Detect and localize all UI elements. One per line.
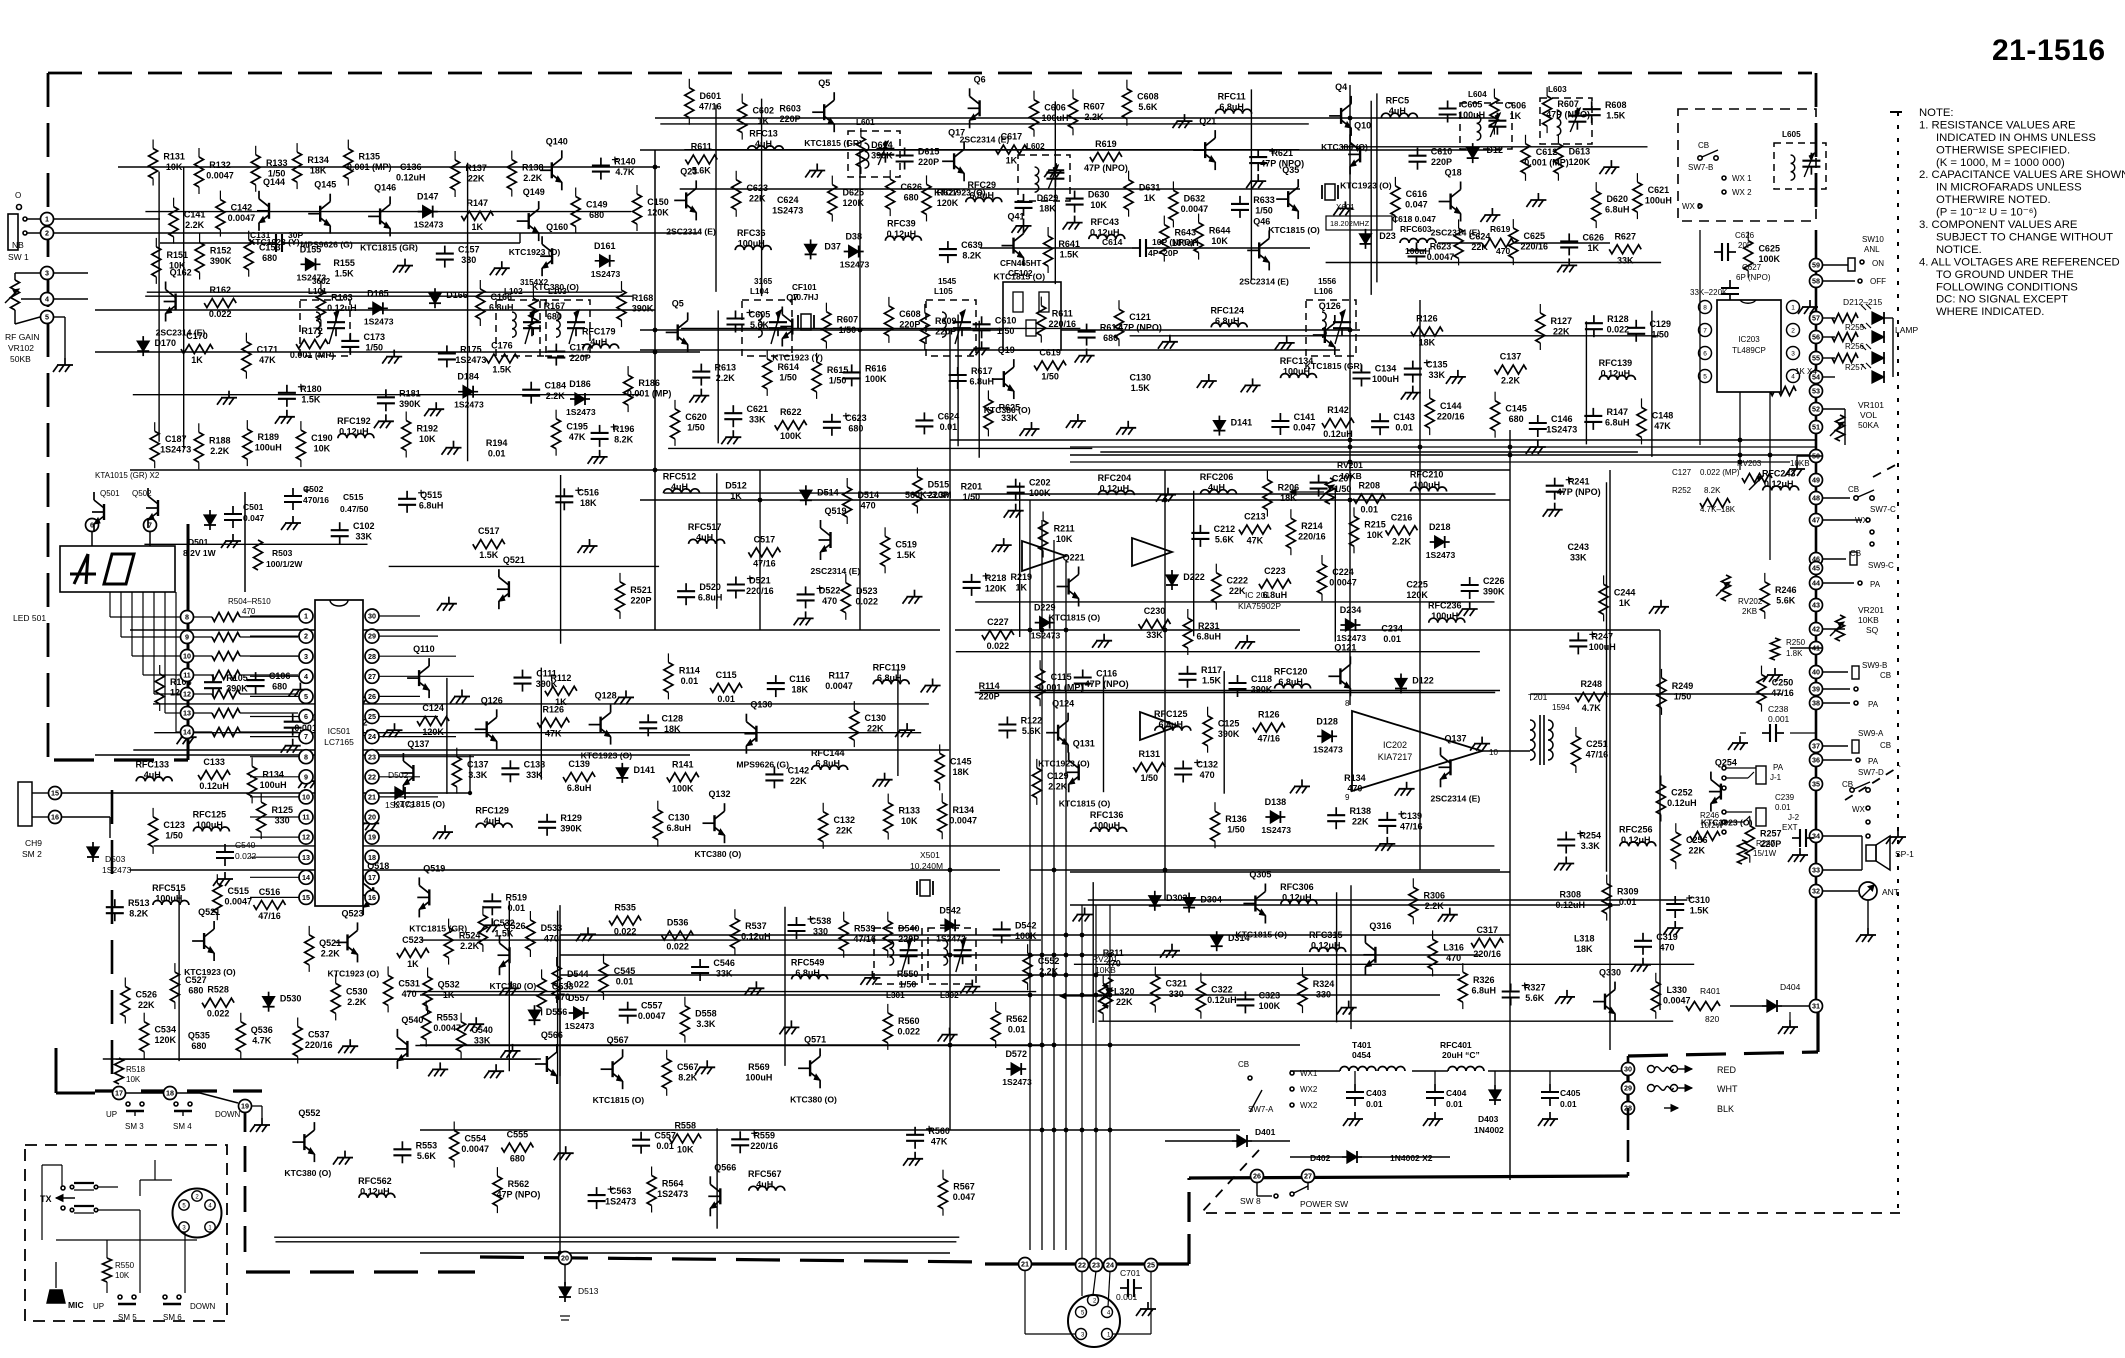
svg-text:4uH: 4uH xyxy=(755,139,772,149)
svg-text:0.0047: 0.0047 xyxy=(225,897,253,907)
svg-text:C125: C125 xyxy=(1218,719,1240,729)
svg-text:RFC315: RFC315 xyxy=(1309,930,1343,940)
svg-text:D512: D512 xyxy=(725,481,747,491)
svg-text:4uH: 4uH xyxy=(590,337,607,347)
svg-text:C143: C143 xyxy=(1393,412,1415,422)
svg-text:CB: CB xyxy=(1850,549,1861,558)
svg-text:1S2473: 1S2473 xyxy=(297,272,327,282)
svg-text:Q515: Q515 xyxy=(420,490,442,500)
svg-text:PA: PA xyxy=(1868,757,1879,766)
svg-text:10K: 10K xyxy=(314,444,331,454)
svg-text:C171: C171 xyxy=(257,345,279,355)
svg-text:RFC401: RFC401 xyxy=(1440,1040,1472,1050)
svg-text:58: 58 xyxy=(1812,277,1820,286)
svg-text:19: 19 xyxy=(241,1102,249,1111)
svg-text:KTC1815 (O): KTC1815 (O) xyxy=(593,1095,645,1105)
svg-text:100K: 100K xyxy=(672,783,694,793)
svg-text:C202: C202 xyxy=(1029,478,1051,488)
svg-text:C516: C516 xyxy=(578,487,600,497)
svg-text:OTHERWIRE NOTED.: OTHERWIRE NOTED. xyxy=(1936,194,2051,206)
svg-text:SM 2: SM 2 xyxy=(22,849,42,859)
svg-text:C625: C625 xyxy=(1758,244,1780,254)
svg-text:C519: C519 xyxy=(895,539,917,549)
svg-text:C195: C195 xyxy=(566,422,588,432)
svg-text:C540: C540 xyxy=(235,840,256,850)
svg-text:1S2473: 1S2473 xyxy=(591,269,621,279)
svg-text:5.6K: 5.6K xyxy=(1138,102,1158,112)
svg-text:Q316: Q316 xyxy=(1369,921,1391,931)
svg-text:C563: C563 xyxy=(610,1186,632,1196)
svg-text:C133: C133 xyxy=(203,757,225,767)
svg-text:Q130: Q130 xyxy=(750,700,772,710)
svg-text:1S2473: 1S2473 xyxy=(364,316,394,326)
svg-text:56: 56 xyxy=(1812,333,1820,342)
svg-text:C166: C166 xyxy=(491,292,513,302)
svg-text:WX 3: WX 3 xyxy=(1682,202,1702,211)
svg-text:8.2V 1W: 8.2V 1W xyxy=(183,548,217,558)
svg-text:VOL: VOL xyxy=(1860,410,1877,420)
svg-text:KIA75902P: KIA75902P xyxy=(1238,601,1281,611)
svg-text:R608: R608 xyxy=(1605,100,1627,110)
svg-text:1K: 1K xyxy=(1510,111,1522,121)
svg-text:0.12uH: 0.12uH xyxy=(1621,835,1651,845)
svg-text:R603: R603 xyxy=(779,103,801,113)
svg-text:47K: 47K xyxy=(569,432,586,442)
svg-text:6: 6 xyxy=(304,712,308,721)
svg-text:C517: C517 xyxy=(754,534,776,544)
svg-text:R246: R246 xyxy=(1775,585,1797,595)
svg-text:SW9-C: SW9-C xyxy=(1868,561,1894,570)
svg-text:680: 680 xyxy=(848,423,863,433)
svg-text:0.01: 0.01 xyxy=(1383,634,1401,644)
svg-text:C624: C624 xyxy=(777,195,799,205)
svg-text:KTC1923 (O): KTC1923 (O) xyxy=(1340,180,1392,190)
svg-text:5: 5 xyxy=(45,313,49,322)
svg-text:3.3K: 3.3K xyxy=(1581,841,1601,851)
svg-text:Q146: Q146 xyxy=(374,182,396,192)
svg-text:1S2473: 1S2473 xyxy=(1546,425,1577,435)
svg-text:0.12uH: 0.12uH xyxy=(1764,479,1794,489)
svg-text:9: 9 xyxy=(304,772,308,781)
svg-text:NOTICE.: NOTICE. xyxy=(1936,244,1982,256)
svg-text:47/16: 47/16 xyxy=(1400,821,1423,831)
svg-text:0.12uH: 0.12uH xyxy=(1311,941,1341,951)
svg-text:D141: D141 xyxy=(1231,418,1253,428)
svg-text:1S2473: 1S2473 xyxy=(102,865,132,875)
svg-text:C123: C123 xyxy=(163,820,185,830)
svg-text:6.8uH: 6.8uH xyxy=(1219,102,1244,112)
svg-text:C170: C170 xyxy=(186,331,208,341)
svg-text:IN MICROFARADS UNLESS: IN MICROFARADS UNLESS xyxy=(1936,182,2082,194)
svg-text:6.8uH: 6.8uH xyxy=(698,593,723,603)
svg-text:220P: 220P xyxy=(570,353,591,363)
svg-text:R528: R528 xyxy=(207,985,229,995)
svg-text:C554: C554 xyxy=(464,1134,486,1144)
svg-text:D536: D536 xyxy=(667,918,689,928)
svg-text:Q532: Q532 xyxy=(438,980,460,990)
svg-text:C132: C132 xyxy=(1196,760,1218,770)
svg-text:1/50: 1/50 xyxy=(687,422,705,432)
svg-text:3. COMPONENT VALUES ARE: 3. COMPONENT VALUES ARE xyxy=(1919,219,2078,231)
svg-text:100uH: 100uH xyxy=(255,443,282,453)
svg-text:220P: 220P xyxy=(935,326,956,336)
svg-text:R254: R254 xyxy=(1579,831,1601,841)
svg-text:C502: C502 xyxy=(303,484,324,494)
svg-text:C141: C141 xyxy=(1294,412,1316,422)
svg-text:100uH: 100uH xyxy=(1041,113,1068,123)
svg-text:Q162: Q162 xyxy=(170,268,192,278)
svg-text:C173: C173 xyxy=(364,332,386,342)
svg-text:470: 470 xyxy=(242,607,256,616)
svg-text:R609: R609 xyxy=(935,316,957,326)
svg-text:30P: 30P xyxy=(288,230,303,240)
svg-text:D229: D229 xyxy=(1034,603,1056,613)
svg-text:38: 38 xyxy=(1812,699,1820,708)
svg-text:0.022: 0.022 xyxy=(666,942,689,952)
svg-text:0.01: 0.01 xyxy=(1361,505,1379,515)
svg-text:47P (NPO): 47P (NPO) xyxy=(496,1190,540,1200)
svg-text:1556: 1556 xyxy=(1318,277,1337,286)
svg-text:22K: 22K xyxy=(468,174,485,184)
svg-text:10K: 10K xyxy=(419,434,436,444)
svg-text:IC203: IC203 xyxy=(1738,335,1760,344)
svg-text:25: 25 xyxy=(368,712,376,721)
svg-text:470: 470 xyxy=(1496,246,1510,256)
svg-text:390K: 390K xyxy=(210,256,232,266)
svg-text:RV202: RV202 xyxy=(1738,597,1763,606)
svg-text:22K: 22K xyxy=(1116,997,1133,1007)
svg-text:2: 2 xyxy=(304,632,308,641)
svg-text:R521: R521 xyxy=(630,585,652,595)
svg-text:D515: D515 xyxy=(928,480,950,490)
svg-text:C626: C626 xyxy=(1582,232,1604,242)
svg-text:CB: CB xyxy=(1698,141,1709,150)
svg-text:12: 12 xyxy=(302,833,310,842)
svg-text:R644: R644 xyxy=(1209,226,1231,236)
svg-text:D615: D615 xyxy=(918,147,940,157)
svg-text:18: 18 xyxy=(368,853,376,862)
svg-text:47K: 47K xyxy=(1654,421,1671,431)
svg-text:C145: C145 xyxy=(1505,404,1527,414)
svg-text:C227: C227 xyxy=(987,617,1009,627)
svg-text:D542: D542 xyxy=(939,905,961,915)
svg-text:0.022: 0.022 xyxy=(1607,325,1630,335)
svg-text:8: 8 xyxy=(1345,699,1350,708)
svg-text:6.8uH: 6.8uH xyxy=(1278,677,1303,687)
svg-text:C230: C230 xyxy=(1144,606,1166,616)
svg-text:R188: R188 xyxy=(209,435,231,445)
svg-text:1/50: 1/50 xyxy=(1227,825,1245,835)
svg-text:D212–215: D212–215 xyxy=(1843,297,1883,307)
svg-text:4: 4 xyxy=(1791,374,1795,381)
svg-text:2.2K: 2.2K xyxy=(1501,376,1521,386)
svg-text:Q305: Q305 xyxy=(1249,870,1271,880)
svg-text:0.01: 0.01 xyxy=(1395,423,1413,433)
svg-text:1/50: 1/50 xyxy=(829,375,847,385)
svg-text:C153: C153 xyxy=(259,243,281,253)
svg-text:R180: R180 xyxy=(300,384,322,394)
svg-text:R219: R219 xyxy=(1011,572,1033,582)
svg-text:RFC125: RFC125 xyxy=(1154,709,1188,719)
svg-text:C137: C137 xyxy=(1500,352,1522,362)
svg-text:330: 330 xyxy=(1169,989,1184,999)
svg-text:17: 17 xyxy=(115,1089,123,1098)
svg-text:120K: 120K xyxy=(843,198,865,208)
svg-text:10KB: 10KB xyxy=(1858,615,1879,625)
svg-text:C224: C224 xyxy=(1332,567,1354,577)
svg-text:47/16: 47/16 xyxy=(699,101,722,111)
svg-text:R133: R133 xyxy=(266,158,288,168)
svg-text:UP: UP xyxy=(106,1110,117,1119)
svg-text:D503: D503 xyxy=(105,854,126,864)
svg-text:10K: 10K xyxy=(1056,534,1073,544)
svg-text:1/50: 1/50 xyxy=(963,492,981,502)
svg-text:L302: L302 xyxy=(940,991,959,1000)
svg-text:1.5K: 1.5K xyxy=(494,928,514,938)
svg-text:R196: R196 xyxy=(613,424,635,434)
svg-text:7: 7 xyxy=(304,732,308,741)
svg-text:1/50: 1/50 xyxy=(1041,371,1059,381)
svg-text:C128: C128 xyxy=(661,713,683,723)
svg-text:4uH: 4uH xyxy=(696,532,713,542)
svg-text:120K: 120K xyxy=(422,727,444,737)
svg-text:LC7165: LC7165 xyxy=(324,737,354,747)
svg-text:0.0047: 0.0047 xyxy=(1663,995,1691,1005)
svg-text:390K: 390K xyxy=(871,151,893,161)
svg-text:1S2473: 1S2473 xyxy=(936,933,966,943)
svg-text:680: 680 xyxy=(1509,414,1524,424)
svg-text:IC202: IC202 xyxy=(1383,740,1407,750)
svg-text:2.2K: 2.2K xyxy=(321,948,341,958)
svg-text:220P: 220P xyxy=(918,157,939,167)
svg-text:C118: C118 xyxy=(1251,674,1272,684)
svg-text:R246: R246 xyxy=(1700,811,1720,820)
svg-text:0.022: 0.022 xyxy=(987,641,1010,651)
svg-text:R201: R201 xyxy=(961,481,983,491)
svg-text:2.2K: 2.2K xyxy=(185,220,205,230)
svg-text:RFC206: RFC206 xyxy=(1200,472,1234,482)
svg-text:1S2473: 1S2473 xyxy=(1313,744,1343,754)
svg-text:1/50: 1/50 xyxy=(366,342,384,352)
svg-text:RFC256: RFC256 xyxy=(1619,824,1653,834)
svg-text:R567: R567 xyxy=(953,1182,975,1192)
svg-text:R140: R140 xyxy=(614,157,636,167)
svg-text:1.5K: 1.5K xyxy=(301,394,321,404)
svg-text:RFC43: RFC43 xyxy=(1091,217,1120,227)
svg-text:0.0047: 0.0047 xyxy=(461,1144,489,1154)
svg-text:C223: C223 xyxy=(1264,566,1286,576)
svg-text:49: 49 xyxy=(1812,476,1820,485)
svg-text:D572: D572 xyxy=(1005,1049,1027,1059)
svg-text:CH9: CH9 xyxy=(25,838,42,848)
svg-text:5: 5 xyxy=(304,692,308,701)
svg-text:Q501: Q501 xyxy=(100,489,120,498)
svg-text:42: 42 xyxy=(1812,625,1820,634)
svg-text:SW7-C: SW7-C xyxy=(1870,505,1896,514)
svg-text:Q523: Q523 xyxy=(342,908,364,918)
svg-text:R621: R621 xyxy=(1271,148,1293,158)
svg-text:L316: L316 xyxy=(1443,942,1464,952)
svg-text:D128: D128 xyxy=(1316,716,1338,726)
svg-text:RFC5: RFC5 xyxy=(1386,96,1410,106)
svg-text:6.8uH: 6.8uH xyxy=(489,303,514,313)
svg-text:57: 57 xyxy=(1812,314,1820,323)
svg-text:R214: R214 xyxy=(1301,521,1323,531)
svg-text:1K: 1K xyxy=(1016,583,1028,593)
svg-text:1/50: 1/50 xyxy=(1255,205,1273,215)
svg-text:Q41: Q41 xyxy=(1008,212,1025,222)
svg-text:R326: R326 xyxy=(1473,975,1495,985)
svg-text:OFF: OFF xyxy=(1870,277,1886,286)
svg-text:X501: X501 xyxy=(920,850,940,860)
svg-text:10KB: 10KB xyxy=(1340,471,1362,481)
svg-text:D521: D521 xyxy=(749,576,771,586)
svg-text:R127: R127 xyxy=(1551,316,1573,326)
svg-text:220P: 220P xyxy=(898,934,919,944)
svg-text:C606: C606 xyxy=(1044,103,1066,113)
svg-text:Q5: Q5 xyxy=(672,298,684,308)
svg-text:L318: L318 xyxy=(1574,933,1595,943)
svg-text:0.047: 0.047 xyxy=(953,1192,976,1202)
svg-text:680: 680 xyxy=(589,210,604,220)
svg-text:6P (NPO): 6P (NPO) xyxy=(1736,273,1771,282)
svg-text:TO GROUND UNDER THE: TO GROUND UNDER THE xyxy=(1936,269,2074,281)
svg-text:220P: 220P xyxy=(979,691,1000,701)
svg-text:6.8uH: 6.8uH xyxy=(969,377,994,387)
svg-text:RFC36: RFC36 xyxy=(737,228,766,238)
svg-text:680: 680 xyxy=(262,253,277,263)
svg-text:C626: C626 xyxy=(1735,231,1755,240)
svg-text:C131: C131 xyxy=(250,230,271,240)
svg-text:470: 470 xyxy=(1659,942,1674,952)
svg-text:KTC380 (O): KTC380 (O) xyxy=(532,282,579,292)
svg-text:RV201: RV201 xyxy=(1337,460,1363,470)
svg-text:DC: NO SIGNAL EXCEPT: DC: NO SIGNAL EXCEPT xyxy=(1936,294,2068,306)
svg-text:C142: C142 xyxy=(231,203,253,213)
svg-text:27: 27 xyxy=(368,672,376,681)
svg-text:C531: C531 xyxy=(398,978,420,988)
svg-text:1S2473: 1S2473 xyxy=(455,355,486,365)
svg-text:C138: C138 xyxy=(524,759,546,769)
svg-text:Q519: Q519 xyxy=(825,506,847,516)
svg-text:0.12uH: 0.12uH xyxy=(1323,429,1353,439)
svg-text:14: 14 xyxy=(302,873,310,882)
svg-text:15/1W: 15/1W xyxy=(1753,849,1777,858)
svg-text:C538: C538 xyxy=(810,916,832,926)
svg-text:19: 19 xyxy=(368,833,376,842)
svg-text:1.5K: 1.5K xyxy=(1606,111,1626,121)
svg-text:10K: 10K xyxy=(1090,200,1107,210)
svg-text:INDICATED IN OHMS UNLESS: INDICATED IN OHMS UNLESS xyxy=(1936,132,2096,144)
svg-text:100uH: 100uH xyxy=(1405,246,1431,256)
svg-text:2.2K: 2.2K xyxy=(210,446,230,456)
svg-text:4uH: 4uH xyxy=(756,1179,773,1189)
svg-text:1/50: 1/50 xyxy=(899,980,917,990)
svg-text:3: 3 xyxy=(304,652,308,661)
svg-text:C621: C621 xyxy=(747,404,769,414)
svg-text:C130: C130 xyxy=(865,713,887,723)
svg-text:C621: C621 xyxy=(1648,185,1670,195)
svg-text:R208: R208 xyxy=(1359,481,1381,491)
svg-text:6.8uH: 6.8uH xyxy=(419,500,444,510)
svg-text:UP: UP xyxy=(93,1302,104,1311)
svg-text:R535: R535 xyxy=(614,903,636,913)
svg-text:C213: C213 xyxy=(1244,512,1266,522)
svg-text:0.001 (MP): 0.001 (MP) xyxy=(290,350,335,360)
svg-text:220/16: 220/16 xyxy=(305,1040,333,1050)
svg-text:0.001: 0.001 xyxy=(1116,1292,1138,1302)
svg-text:680: 680 xyxy=(547,312,562,322)
svg-text:33K: 33K xyxy=(1001,413,1018,423)
svg-text:3.3K: 3.3K xyxy=(696,1019,716,1029)
svg-text:100uH: 100uH xyxy=(738,239,765,249)
svg-text:SM 6: SM 6 xyxy=(163,1313,182,1322)
svg-text:4uH: 4uH xyxy=(144,770,161,780)
svg-text:6.8uH: 6.8uH xyxy=(1605,205,1630,215)
svg-text:7: 7 xyxy=(1703,328,1707,335)
svg-text:2.2K: 2.2K xyxy=(716,373,736,383)
svg-text:47K: 47K xyxy=(931,1136,948,1146)
svg-text:C250: C250 xyxy=(1772,678,1794,688)
svg-text:R619: R619 xyxy=(1095,139,1117,149)
svg-text:C216: C216 xyxy=(1391,512,1413,522)
svg-text:C157: C157 xyxy=(458,245,480,255)
svg-text:C555: C555 xyxy=(507,1130,529,1140)
svg-text:2.2K: 2.2K xyxy=(1048,781,1068,791)
svg-text:0.12uH: 0.12uH xyxy=(741,932,771,942)
svg-text:D523: D523 xyxy=(856,586,878,596)
svg-text:R134: R134 xyxy=(262,769,284,779)
svg-text:R550: R550 xyxy=(897,969,919,979)
svg-text:R558: R558 xyxy=(674,1121,696,1131)
svg-text:220P: 220P xyxy=(899,319,920,329)
svg-text:0.12uH: 0.12uH xyxy=(1282,893,1312,903)
svg-text:L601: L601 xyxy=(856,118,875,127)
svg-text:100K: 100K xyxy=(1758,254,1780,264)
svg-text:8.2K: 8.2K xyxy=(129,909,149,919)
svg-text:PA: PA xyxy=(1870,580,1881,589)
svg-text:D38: D38 xyxy=(845,232,862,242)
svg-text:R135: R135 xyxy=(359,152,381,162)
svg-text:C567: C567 xyxy=(677,1062,699,1072)
svg-text:WHT: WHT xyxy=(1717,1084,1738,1094)
svg-text:100uH: 100uH xyxy=(1413,480,1440,490)
svg-text:C132: C132 xyxy=(833,815,855,825)
svg-text:D404: D404 xyxy=(1780,982,1801,992)
svg-text:0.01: 0.01 xyxy=(940,422,958,432)
svg-text:1: 1 xyxy=(45,215,49,224)
svg-text:D632: D632 xyxy=(1184,193,1206,203)
svg-text:1K: 1K xyxy=(1006,156,1018,166)
svg-text:D558: D558 xyxy=(695,1009,717,1019)
svg-text:32: 32 xyxy=(1812,887,1820,896)
svg-text:C534: C534 xyxy=(154,1025,176,1035)
svg-text:D314: D314 xyxy=(1228,933,1250,943)
svg-text:C557: C557 xyxy=(654,1131,676,1141)
svg-text:C116: C116 xyxy=(789,674,810,684)
svg-text:390K: 390K xyxy=(1218,729,1240,739)
svg-text:1K: 1K xyxy=(757,116,769,126)
svg-text:R125: R125 xyxy=(271,805,293,815)
svg-text:R151: R151 xyxy=(167,250,189,260)
svg-text:47P (NPO): 47P (NPO) xyxy=(1085,679,1129,689)
svg-text:R539: R539 xyxy=(854,924,876,934)
svg-text:0.0047: 0.0047 xyxy=(433,1023,461,1033)
svg-text:D222: D222 xyxy=(1183,572,1205,582)
svg-text:R126: R126 xyxy=(1258,710,1280,720)
svg-text:47/16: 47/16 xyxy=(753,558,776,568)
svg-text:1S2473: 1S2473 xyxy=(385,800,415,810)
